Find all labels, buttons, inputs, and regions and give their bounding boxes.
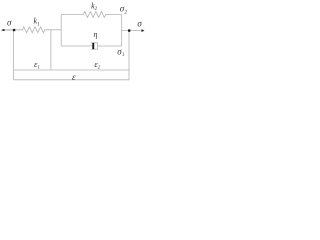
svg-text:σ2: σ2 xyxy=(120,4,128,16)
svg-text:σ: σ xyxy=(137,18,142,28)
svg-text:ε1: ε1 xyxy=(34,59,40,70)
svg-text:η: η xyxy=(94,30,98,39)
svg-text:σ1: σ1 xyxy=(117,46,124,58)
svg-text:ε2: ε2 xyxy=(94,59,100,70)
svg-text:σ: σ xyxy=(7,18,12,28)
svg-text:ε: ε xyxy=(72,72,76,82)
svg-text:k1: k1 xyxy=(34,17,40,28)
svg-text:k2: k2 xyxy=(91,1,98,12)
